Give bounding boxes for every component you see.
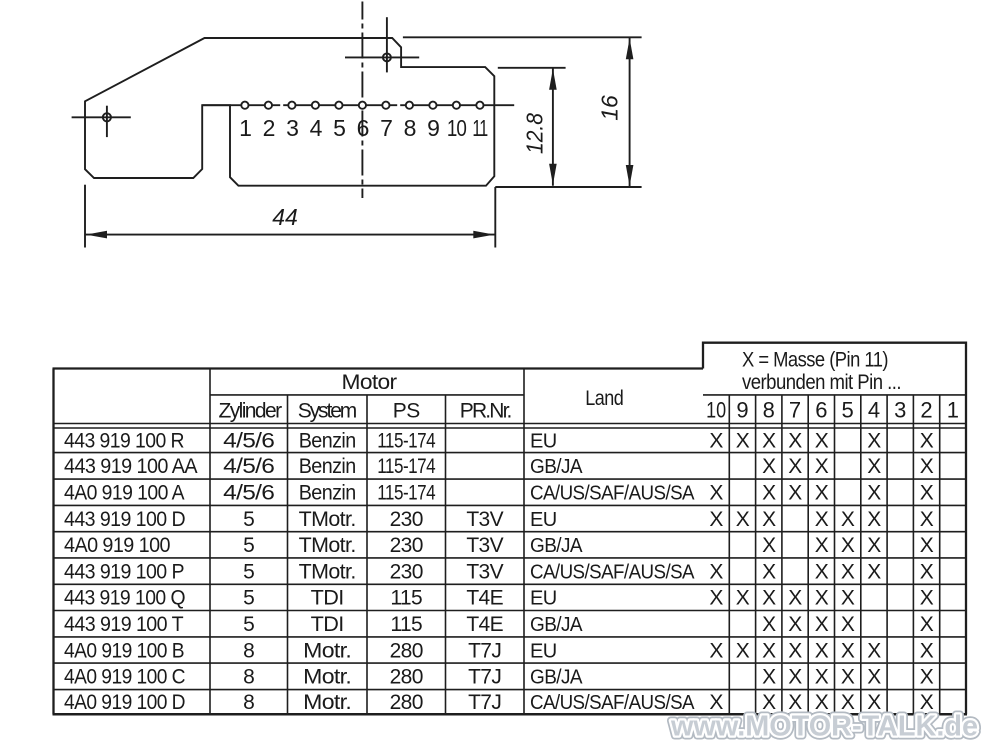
svg-text:115: 115: [390, 587, 422, 610]
svg-text:T4E: T4E: [466, 613, 503, 636]
svg-text:X: X: [762, 613, 776, 636]
svg-text:verbunden mit Pin ...: verbunden mit Pin ...: [742, 371, 901, 394]
svg-text:X: X: [867, 666, 881, 689]
svg-text:2: 2: [920, 398, 932, 423]
svg-text:X: X: [841, 508, 855, 531]
svg-text:115-174: 115-174: [377, 455, 436, 478]
svg-text:X: X: [709, 508, 723, 531]
svg-text:1: 1: [239, 115, 251, 141]
svg-text:443 919 100 P: 443 919 100 P: [64, 560, 184, 583]
svg-text:X: X: [815, 482, 829, 505]
svg-text:X: X: [867, 455, 881, 478]
svg-text:X: X: [815, 455, 829, 478]
svg-text:EU: EU: [530, 509, 557, 531]
svg-text:TDI: TDI: [311, 613, 344, 636]
dim 12.8 dimension line: [552, 68, 554, 186]
svg-text:8: 8: [243, 691, 254, 714]
pins 1-11: [241, 102, 248, 109]
pin number header 10..1: [706, 398, 959, 423]
row 9: 4A0 919 100 B: [64, 639, 934, 662]
svg-text:4A0 919 100 D: 4A0 919 100 D: [64, 691, 185, 714]
svg-text:GB/JA: GB/JA: [530, 614, 583, 636]
dim 44 extension line left: [84, 185, 86, 248]
svg-text:X: X: [736, 587, 750, 610]
svg-text:X: X: [920, 455, 934, 478]
row 7: 443 919 100 Q: [64, 587, 934, 610]
svg-text:16: 16: [597, 95, 623, 121]
svg-text:X: X: [709, 587, 723, 610]
svg-text:X: X: [920, 534, 934, 557]
svg-text:X: X: [736, 639, 750, 662]
svg-text:GB/JA: GB/JA: [530, 667, 583, 689]
svg-text:X: X: [788, 482, 802, 505]
svg-text:Motr.: Motr.: [303, 691, 351, 714]
svg-text:X: X: [920, 482, 934, 505]
svg-text:X: X: [815, 430, 829, 453]
svg-text:4A0 919 100 B: 4A0 919 100 B: [64, 639, 184, 662]
svg-text:TDI: TDI: [311, 587, 344, 610]
svg-text:CA/US/SAF/AUS/SA: CA/US/SAF/AUS/SA: [530, 483, 695, 505]
svg-text:9: 9: [736, 398, 748, 423]
dim 12.8 extension line top: [498, 67, 566, 69]
svg-text:5: 5: [841, 398, 853, 423]
svg-text:X: X: [815, 666, 829, 689]
pin numbers 1-11: [239, 115, 488, 141]
svg-text:X: X: [815, 534, 829, 557]
svg-text:5: 5: [243, 560, 254, 583]
svg-text:GB/JA: GB/JA: [530, 535, 583, 557]
svg-text:4: 4: [868, 398, 880, 423]
svg-text:X: X: [762, 639, 776, 662]
svg-text:PS: PS: [393, 400, 420, 423]
svg-text:5: 5: [243, 587, 254, 610]
svg-text:6: 6: [815, 398, 827, 423]
svg-text:EU: EU: [530, 588, 557, 610]
svg-text:280: 280: [390, 639, 423, 662]
svg-text:X: X: [867, 639, 881, 662]
subheader texts: [219, 400, 512, 423]
svg-text:4A0 919 100 A: 4A0 919 100 A: [64, 482, 185, 505]
svg-text:X: X: [920, 560, 934, 583]
svg-text:10: 10: [706, 398, 726, 423]
svg-text:X: X: [736, 430, 750, 453]
hole center mark top: [345, 17, 419, 72]
svg-text:8: 8: [243, 666, 254, 689]
svg-text:X: X: [867, 482, 881, 505]
row 3: 4A0 919 100 A: [64, 482, 934, 505]
svg-text:443 919 100 T: 443 919 100 T: [64, 613, 184, 636]
svg-text:7: 7: [789, 398, 801, 423]
svg-text:X: X: [788, 587, 802, 610]
row 5: 4A0 919 100: [64, 534, 934, 557]
svg-text:X: X: [920, 666, 934, 689]
svg-text:4/5/6: 4/5/6: [223, 455, 274, 478]
svg-text:X: X: [762, 560, 776, 583]
svg-text:44: 44: [272, 204, 298, 230]
row 10: 4A0 919 100 C: [64, 666, 934, 689]
svg-text:443 919 100 R: 443 919 100 R: [64, 430, 184, 453]
svg-text:4A0 919 100: 4A0 919 100: [64, 534, 170, 557]
svg-text:T7J: T7J: [468, 639, 501, 662]
svg-text:X: X: [841, 666, 855, 689]
pin column dividers: [728, 395, 730, 714]
svg-text:4: 4: [310, 115, 323, 141]
svg-text:X: X: [920, 639, 934, 662]
dim 16 dimension line: [629, 37, 631, 187]
X-box bottom / pin numbers row top: [703, 394, 966, 396]
svg-text:230: 230: [390, 508, 423, 531]
svg-text:X: X: [841, 534, 855, 557]
svg-text:GB/JA: GB/JA: [530, 456, 583, 478]
svg-text:5: 5: [243, 534, 254, 557]
svg-text:TMotr.: TMotr.: [299, 534, 356, 557]
svg-text:X: X: [736, 508, 750, 531]
svg-text:X: X: [867, 560, 881, 583]
svg-text:X: X: [920, 587, 934, 610]
svg-text:T3V: T3V: [466, 508, 503, 531]
svg-text:Zylinder: Zylinder: [219, 400, 283, 423]
svg-text:X: X: [709, 430, 723, 453]
main column dividers: [209, 369, 211, 715]
svg-text:443 919 100 AA: 443 919 100 AA: [64, 455, 198, 478]
svg-text:X: X: [841, 613, 855, 636]
svg-text:2: 2: [263, 115, 275, 141]
body row dividers: [54, 452, 967, 454]
pin row centerline: [202, 104, 514, 106]
svg-text:CA/US/SAF/AUS/SA: CA/US/SAF/AUS/SA: [530, 561, 695, 583]
svg-text:6: 6: [357, 115, 369, 141]
svg-text:X: X: [815, 560, 829, 583]
row 2: 443 919 100 AA: [64, 455, 934, 478]
svg-text:4/5/6: 4/5/6: [223, 430, 274, 453]
dim 44 dimension line: [85, 234, 495, 236]
svg-text:X: X: [762, 534, 776, 557]
arrowheads dim 12.8: [549, 69, 557, 90]
svg-text:Benzin: Benzin: [299, 455, 356, 478]
double separator line: [54, 423, 967, 425]
svg-text:4/5/6: 4/5/6: [223, 482, 274, 505]
arrowheads dim 44: [86, 231, 107, 239]
housing right section bottom edge: [495, 186, 641, 188]
svg-text:PR.Nr.: PR.Nr.: [460, 400, 512, 423]
svg-text:X: X: [709, 482, 723, 505]
svg-text:www.MOTOR-TALK.de: www.MOTOR-TALK.de: [670, 711, 978, 743]
row 6: 443 919 100 P: [64, 560, 934, 583]
svg-text:X: X: [841, 639, 855, 662]
svg-text:Benzin: Benzin: [299, 430, 356, 453]
svg-text:X: X: [762, 666, 776, 689]
svg-text:X: X: [788, 613, 802, 636]
svg-text:443 919 100 D: 443 919 100 D: [64, 508, 185, 531]
svg-text:230: 230: [390, 560, 423, 583]
svg-text:443 919 100 Q: 443 919 100 Q: [64, 587, 185, 610]
svg-text:5: 5: [243, 613, 254, 636]
svg-text:230: 230: [390, 534, 423, 557]
row 4: 443 919 100 D: [64, 508, 934, 531]
svg-text:X: X: [762, 587, 776, 610]
svg-text:5: 5: [333, 115, 345, 141]
svg-text:X: X: [920, 508, 934, 531]
hole center mark left: [72, 106, 131, 137]
svg-text:X: X: [762, 482, 776, 505]
svg-text:X: X: [815, 639, 829, 662]
X-box (pin header) outline: left, top, right: [703, 343, 966, 715]
svg-text:7: 7: [380, 115, 392, 141]
housing right section top edge: [403, 36, 642, 38]
svg-text:T4E: T4E: [466, 587, 503, 610]
svg-text:EU: EU: [530, 431, 557, 453]
svg-text:TMotr.: TMotr.: [299, 508, 356, 531]
svg-text:X: X: [788, 666, 802, 689]
svg-text:X: X: [841, 560, 855, 583]
svg-text:Motr.: Motr.: [303, 639, 351, 662]
svg-text:280: 280: [390, 691, 423, 714]
svg-text:10: 10: [447, 115, 466, 141]
svg-text:Motor: Motor: [342, 371, 398, 394]
svg-text:280: 280: [390, 666, 423, 689]
svg-text:8: 8: [243, 639, 254, 662]
svg-text:System: System: [298, 400, 357, 423]
row 11: 4A0 919 100 D: [64, 691, 934, 714]
svg-text:X: X: [920, 613, 934, 636]
svg-text:X: X: [867, 508, 881, 531]
svg-text:X: X: [815, 613, 829, 636]
svg-text:1: 1: [947, 398, 959, 423]
svg-text:X: X: [762, 508, 776, 531]
svg-text:X: X: [709, 639, 723, 662]
table grid: [53, 343, 968, 715]
header divider under Motor: [210, 394, 524, 396]
svg-text:X: X: [867, 534, 881, 557]
svg-text:X: X: [762, 455, 776, 478]
svg-text:Land: Land: [585, 387, 623, 410]
svg-text:115-174: 115-174: [377, 482, 436, 505]
svg-text:X: X: [788, 430, 802, 453]
svg-text:115: 115: [390, 613, 422, 636]
extension line below step for dim 44: [494, 187, 496, 248]
svg-text:EU: EU: [530, 640, 557, 662]
svg-text:X: X: [762, 430, 776, 453]
svg-text:11: 11: [472, 115, 487, 141]
svg-text:X: X: [920, 430, 934, 453]
row 8: 443 919 100 T: [64, 613, 934, 636]
svg-text:9: 9: [427, 115, 439, 141]
svg-text:8: 8: [763, 398, 775, 423]
svg-text:T3V: T3V: [466, 534, 503, 557]
row 1: 443 919 100 R: [64, 430, 934, 453]
svg-text:4A0 919 100 C: 4A0 919 100 C: [64, 666, 185, 689]
svg-text:T7J: T7J: [468, 691, 501, 714]
svg-text:5: 5: [243, 508, 254, 531]
svg-text:X: X: [709, 560, 723, 583]
svg-text:X: X: [788, 639, 802, 662]
svg-text:12.8: 12.8: [522, 113, 548, 154]
svg-text:3: 3: [894, 398, 906, 423]
svg-text:X: X: [841, 587, 855, 610]
svg-text:X: X: [867, 430, 881, 453]
svg-text:TMotr.: TMotr.: [299, 560, 356, 583]
connector housing outline (left section with slot): [85, 38, 494, 186]
table outer frame: left, top(main), bottom: [52, 369, 54, 715]
svg-text:3: 3: [286, 115, 298, 141]
svg-text:X: X: [815, 587, 829, 610]
svg-text:Benzin: Benzin: [299, 482, 356, 505]
svg-text:115-174: 115-174: [377, 430, 436, 453]
svg-text:X: X: [815, 508, 829, 531]
watermark www.MOTOR-TALK.de: [670, 711, 978, 743]
svg-text:X = Masse (Pin 11): X = Masse (Pin 11): [742, 348, 888, 371]
arrowheads dim 16: [626, 38, 634, 59]
vertical centerline through pin 6: [361, 2, 363, 199]
svg-text:T3V: T3V: [466, 560, 503, 583]
svg-text:Motr.: Motr.: [303, 666, 351, 689]
svg-text:T7J: T7J: [468, 666, 501, 689]
svg-text:8: 8: [404, 115, 416, 141]
svg-text:X: X: [788, 455, 802, 478]
